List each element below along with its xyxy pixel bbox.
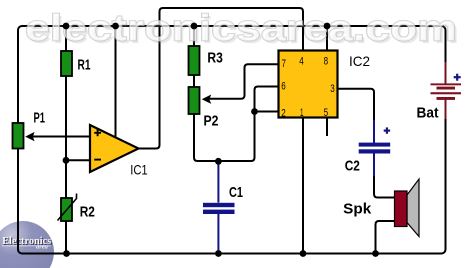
svg-text:1: 1 [300,107,304,119]
svg-text:8: 8 [324,56,329,68]
svg-text:7: 7 [282,58,287,70]
svg-text:Bat: Bat [417,104,439,121]
svg-text:P1: P1 [34,110,46,127]
svg-text:IC2: IC2 [349,53,370,69]
svg-text:R3: R3 [207,49,223,66]
svg-text:P2: P2 [204,113,219,130]
svg-text:4: 4 [299,56,304,68]
svg-text:IC1: IC1 [130,162,148,178]
svg-text:C2: C2 [345,157,360,174]
svg-text:R2: R2 [80,203,95,220]
svg-text:6: 6 [281,80,286,92]
svg-text:área: área [36,243,49,250]
svg-text:C1: C1 [229,184,243,201]
svg-text:3: 3 [330,83,335,95]
svg-text:electronicsarea.com: electronicsarea.com [25,8,457,49]
svg-text:2: 2 [281,107,286,119]
svg-text:R1: R1 [78,57,91,74]
svg-text:5: 5 [324,107,329,119]
svg-text:Spk: Spk [343,200,372,217]
